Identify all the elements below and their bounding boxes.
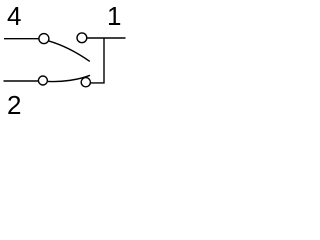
switch S1 (SPDT changeover, pins 4-1-2) bbox=[0, 0, 128, 128]
wire pin 2 bbox=[4, 80, 39, 82]
wire pin 4 bbox=[4, 38, 39, 40]
pin label 4 bbox=[7, 3, 21, 29]
wire common vertical + corner to D bbox=[91, 38, 104, 83]
contact circle A (pin 4) bbox=[39, 34, 49, 44]
pin label 1 bbox=[107, 3, 121, 29]
wire pin 1 bbox=[87, 37, 125, 39]
contact circle C (pin 2) bbox=[38, 76, 47, 85]
pin label 2 bbox=[7, 92, 21, 118]
contact circle D (common bottom) bbox=[81, 78, 90, 87]
lever bottom (closed) bbox=[48, 75, 90, 81]
contact circle B (common top) bbox=[77, 33, 87, 43]
lever top (open) bbox=[49, 41, 90, 62]
